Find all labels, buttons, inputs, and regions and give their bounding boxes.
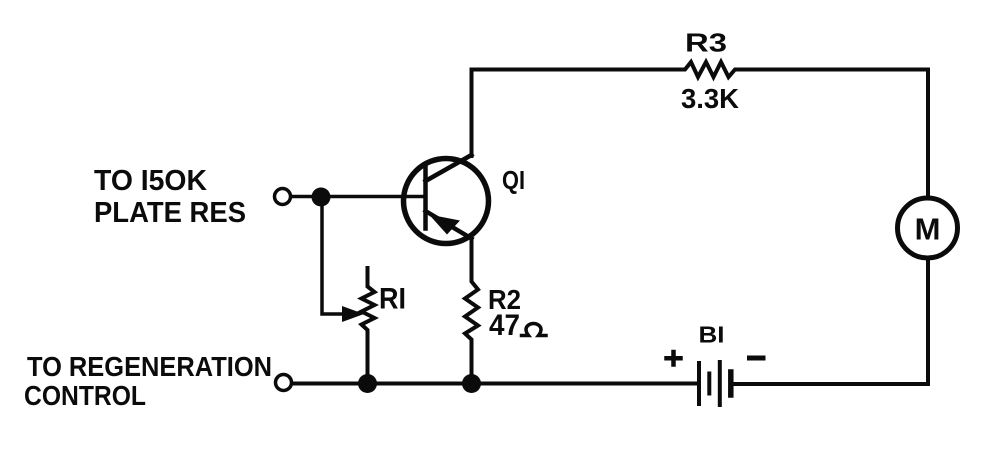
svg-text:47: 47: [489, 309, 520, 342]
svg-text:QI: QI: [502, 165, 525, 195]
svg-text:TO I5OK: TO I5OK: [94, 165, 207, 197]
svg-text:BI: BI: [699, 322, 725, 348]
svg-text:3.3K: 3.3K: [681, 83, 739, 114]
svg-text:M: M: [915, 212, 941, 247]
svg-text:R3: R3: [685, 28, 727, 58]
svg-text:TO REGENERATION: TO REGENERATION: [27, 351, 272, 382]
svg-text:RI: RI: [379, 283, 406, 316]
svg-text:PLATE RES: PLATE RES: [94, 197, 246, 229]
svg-text:CONTROL: CONTROL: [24, 380, 146, 411]
